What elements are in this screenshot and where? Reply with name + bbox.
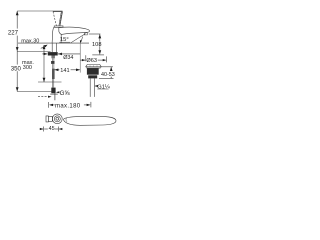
wire top extension line (lever top level) bbox=[17, 10, 62, 12]
node 141 dimension bbox=[54, 69, 59, 71]
svg-text:300: 300 bbox=[23, 65, 32, 71]
node label 227 bbox=[7, 29, 18, 36]
wire left dimension line x=17.2 bbox=[16, 11, 18, 92]
faucet supply pipe upper bbox=[53, 58, 54, 61]
wire diam34 label line bbox=[58, 53, 80, 55]
wire basin rim line bbox=[92, 54, 104, 56]
svg-text:141: 141 bbox=[60, 68, 69, 74]
wire 108 dimension line bbox=[99, 34, 101, 54]
detail fitting shaft bbox=[46, 116, 48, 122]
svg-text:max.180: max.180 bbox=[55, 104, 81, 110]
svg-text:350: 350 bbox=[11, 66, 22, 73]
node arrow up 227 top bbox=[16, 11, 19, 15]
faucet G58 tail below bbox=[54, 93, 56, 100]
svg-text:max.30: max.30 bbox=[21, 38, 39, 44]
wire 108 top extension line bbox=[89, 33, 101, 35]
wire extension line x=80 bbox=[79, 43, 81, 72]
faucet body right edge bbox=[60, 35, 62, 44]
faucet pipe connector dark bbox=[51, 61, 54, 64]
faucet G58 connector dark bbox=[51, 88, 55, 94]
detail fitting head circles bbox=[52, 114, 62, 124]
node arrow down 350 bottom bbox=[16, 87, 19, 91]
faucet supply pipe mid bbox=[53, 64, 54, 69]
node max.180 dimension bbox=[48, 102, 50, 108]
svg-text:108: 108 bbox=[92, 42, 102, 48]
faucet shank nut bbox=[51, 56, 55, 59]
node arrow down 108 bbox=[98, 50, 101, 54]
node arrow down 227 bottom bbox=[16, 47, 19, 51]
faucet lever inner hatch bbox=[59, 12, 61, 26]
node label 350 bbox=[10, 65, 22, 72]
popup waste flange bbox=[86, 65, 102, 67]
node 45 dimension bbox=[39, 128, 43, 130]
wire hose bottom line 350 bbox=[17, 91, 55, 93]
faucet lever collar bbox=[54, 26, 63, 27]
popup waste tailpipe bbox=[90, 78, 94, 97]
popup waste hatched body dark bbox=[87, 68, 99, 75]
faucet lever left edge dashed bbox=[53, 12, 56, 26]
wire max300 bottom extension line bbox=[38, 81, 62, 83]
svg-text:Ø34: Ø34 bbox=[63, 55, 73, 61]
node max.30 leader arrow bbox=[41, 46, 46, 49]
wire deck top line bbox=[18, 42, 89, 44]
faucet braided hose dark bbox=[52, 69, 55, 79]
wire deck underside line bbox=[17, 51, 50, 53]
node 40-53 dimension bbox=[100, 66, 113, 68]
node label G58 bbox=[57, 91, 59, 93]
faucet outlet mousseur bbox=[84, 33, 87, 35]
node 15deg angle line bbox=[71, 34, 86, 43]
node arrow up 108 bbox=[98, 34, 101, 38]
faucet body left edge bbox=[52, 27, 54, 43]
node arrow down max300 bottom bbox=[43, 78, 46, 82]
svg-text:40-53: 40-53 bbox=[101, 72, 115, 78]
svg-text:227: 227 bbox=[8, 30, 19, 37]
node label G114 bbox=[95, 85, 97, 87]
node label 108 bbox=[92, 41, 100, 47]
svg-text:Ø63: Ø63 bbox=[86, 58, 97, 64]
node diam34 arrows bbox=[42, 53, 47, 55]
node diam63 dimension bbox=[80, 59, 85, 61]
svg-text:G⅝: G⅝ bbox=[60, 90, 71, 97]
faucet shank below deck bbox=[52, 43, 56, 52]
faucet supply pipe lower bbox=[53, 79, 54, 88]
faucet lever top bbox=[53, 11, 62, 13]
node arrow up max300 top bbox=[43, 45, 46, 49]
faucet locknut dark bbox=[48, 52, 58, 55]
faucet spout outline bbox=[59, 27, 90, 34]
svg-text:45: 45 bbox=[49, 126, 55, 132]
wire dashed leader to hose tail bbox=[38, 96, 47, 98]
faucet hose end line bbox=[50, 93, 58, 95]
detail lever top view bbox=[64, 117, 117, 126]
svg-text:G1¼: G1¼ bbox=[97, 84, 110, 90]
faucet lever right edge bbox=[60, 12, 63, 26]
wire max.300 dimension line x=44 bbox=[43, 45, 45, 82]
